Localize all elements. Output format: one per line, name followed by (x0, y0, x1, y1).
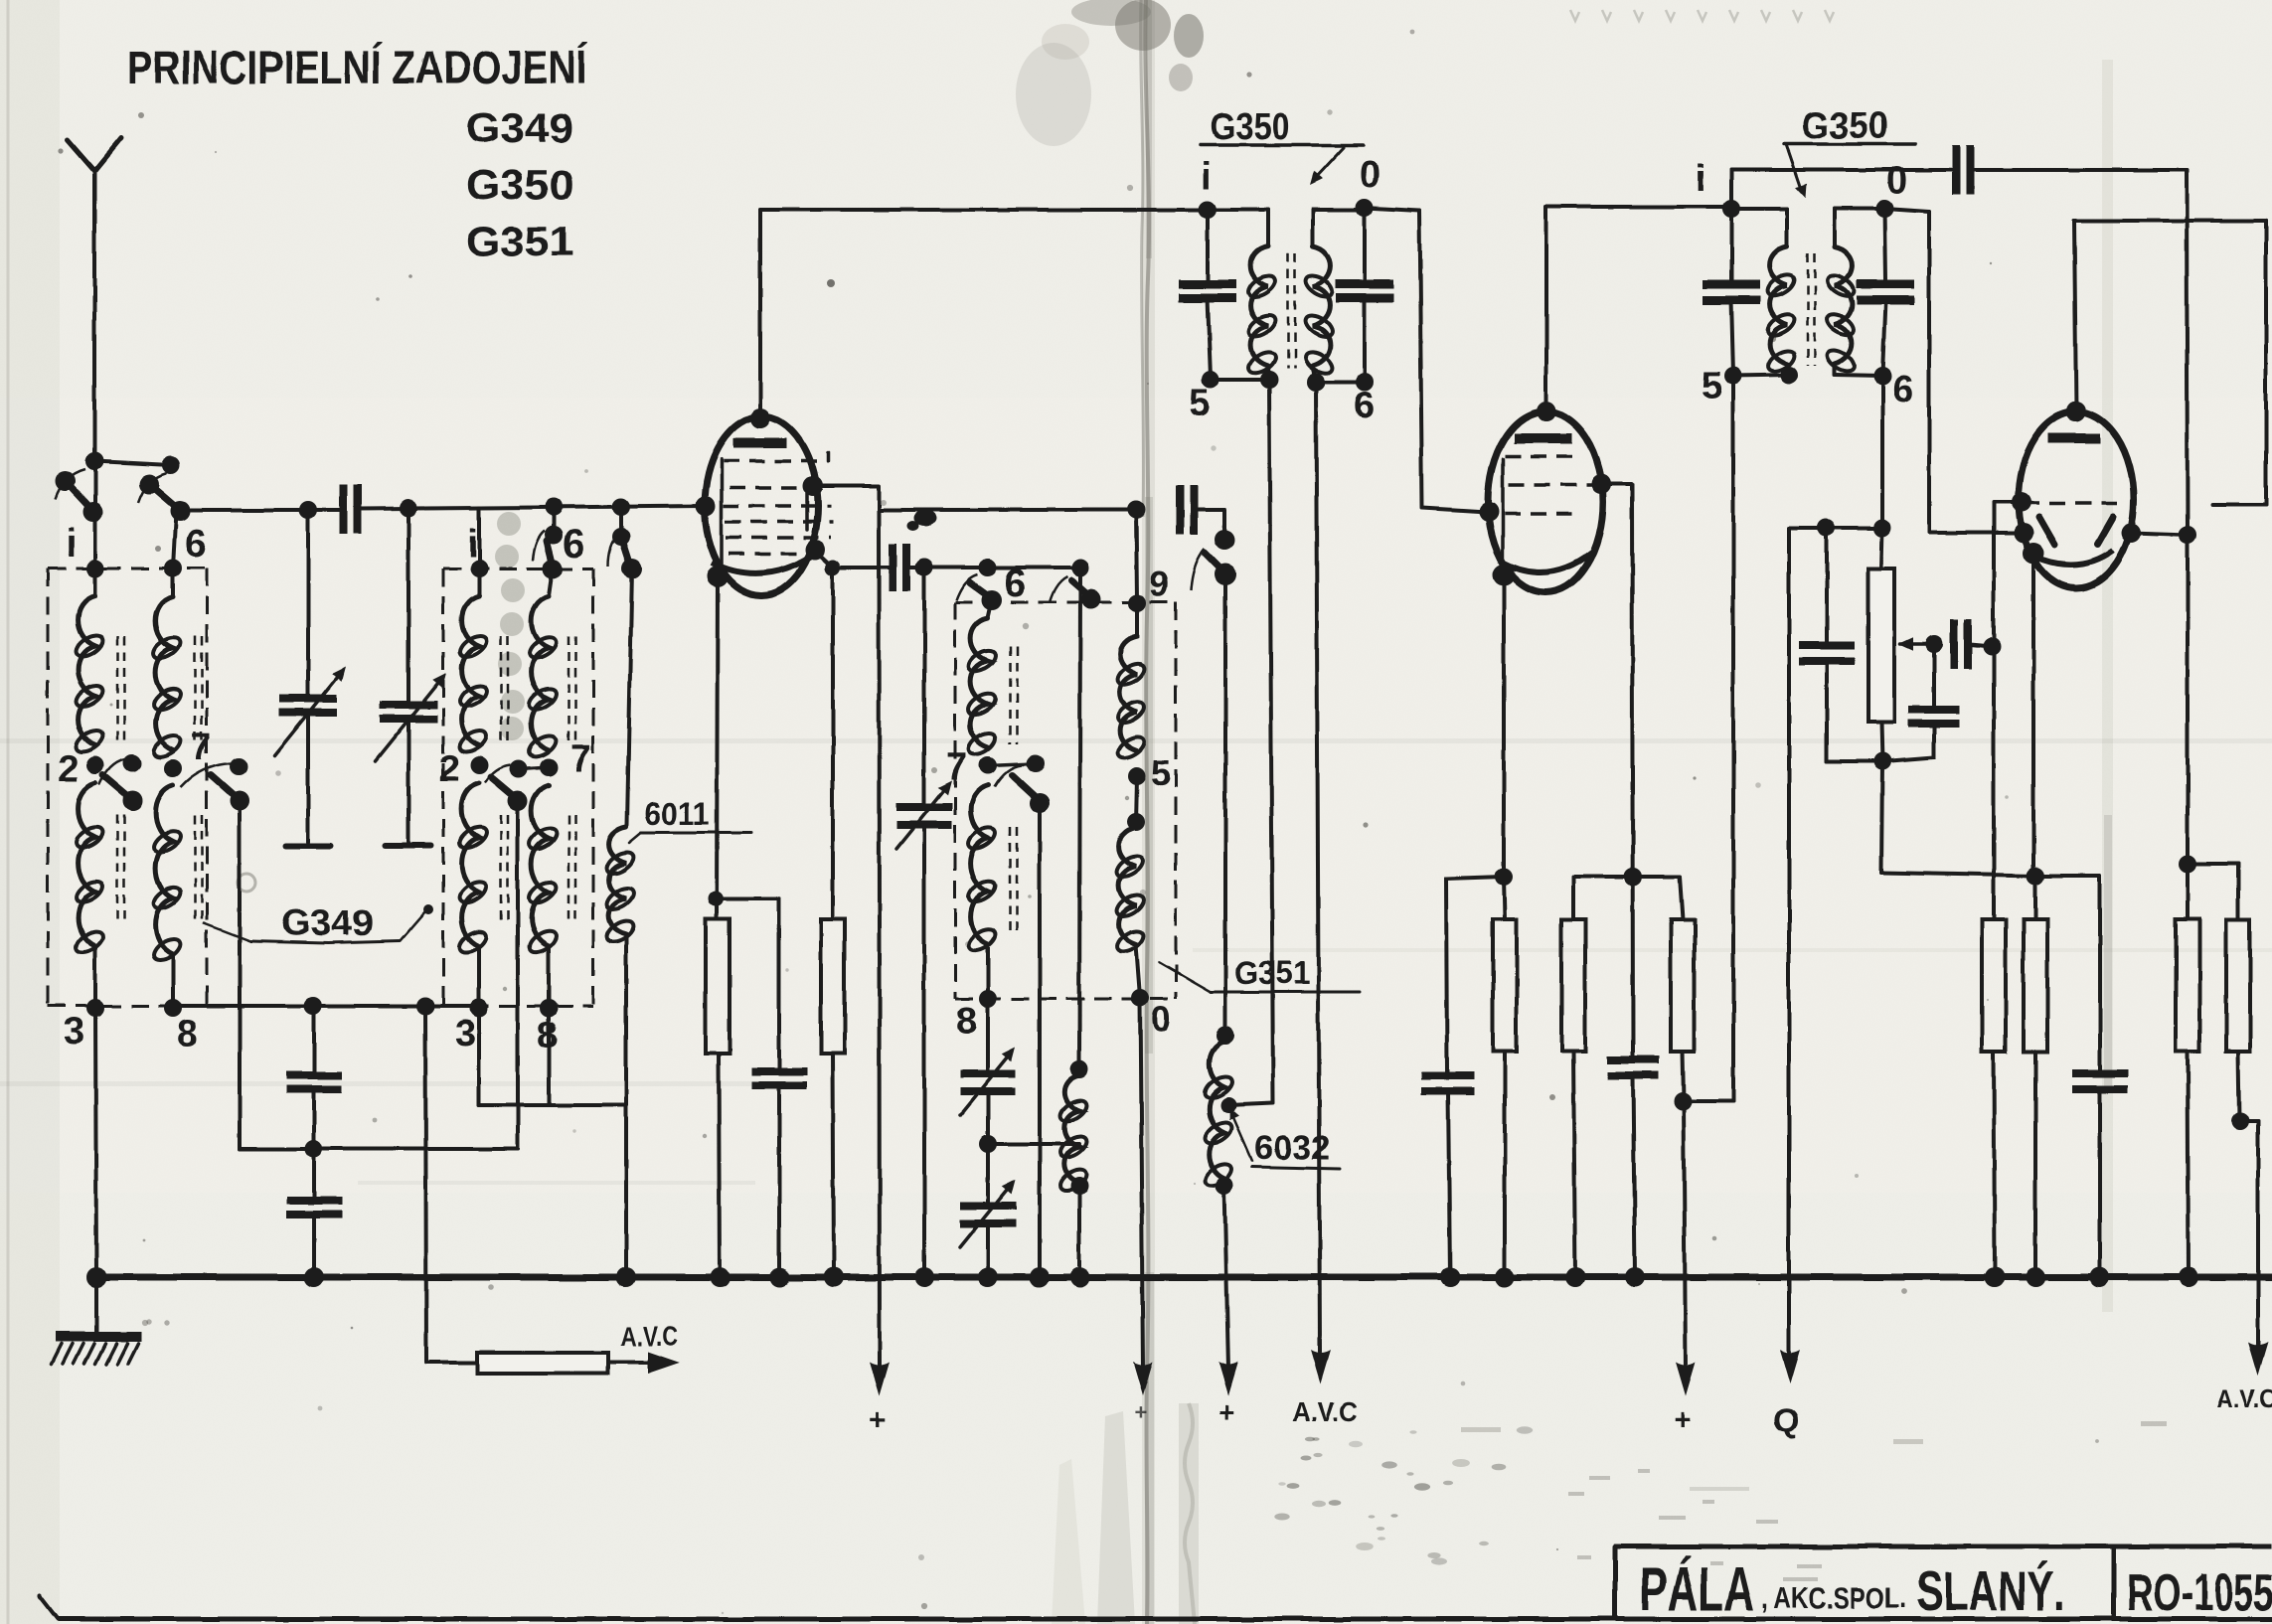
coil L11 primary (1208, 210, 1279, 380)
svg-text:5: 5 (1151, 752, 1171, 793)
node (825, 560, 841, 575)
switch S3a at tap 2 (99, 754, 143, 811)
node 6 (1356, 373, 1374, 391)
wire main tuning line (180, 508, 342, 512)
node tap 2 (470, 756, 488, 774)
svg-text:i: i (467, 522, 478, 566)
wire anode rail (760, 208, 1208, 212)
node terminal 3 (470, 999, 488, 1017)
node bus junction (304, 1267, 324, 1287)
node bus junction (1495, 1267, 1515, 1287)
wire to plus (879, 510, 880, 1370)
tube V3 grid dashes (2024, 501, 2123, 505)
node terminal 1 (470, 560, 488, 577)
wire terminal 1 lead (477, 508, 481, 568)
wire (1881, 722, 1882, 761)
wire padder lead (922, 568, 926, 803)
node (1925, 635, 1943, 653)
resistor R8 (2176, 864, 2199, 1052)
wire (1827, 759, 1882, 763)
capacitor C3 (1180, 485, 1194, 535)
coil L2a upper (456, 568, 490, 756)
svg-text:+: + (1218, 1396, 1234, 1427)
svg-text:7: 7 (946, 746, 967, 788)
node (299, 501, 317, 519)
wire 3b drop (477, 1008, 481, 1105)
wire tap switch drop (238, 801, 242, 1149)
node i (1722, 200, 1740, 218)
coil L10 upper (1114, 603, 1148, 762)
node bus junction (1985, 1267, 2005, 1287)
label G349 with callouts (204, 902, 433, 943)
node grid (1479, 502, 1499, 522)
node terminal 3 (86, 999, 104, 1017)
node (1070, 1177, 1088, 1195)
capacitor C13 (1607, 1059, 1659, 1277)
coil L7 (1056, 1075, 1090, 1195)
svg-text:+: + (1135, 1399, 1148, 1424)
capacitor C12 (1421, 879, 1475, 1277)
wire (716, 898, 779, 1067)
switch S7 at tap (988, 754, 1050, 813)
label terminal 3 (455, 1013, 476, 1055)
coil L1a upper (73, 568, 106, 756)
svg-text:6: 6 (185, 522, 207, 566)
label 0 (1886, 160, 1907, 202)
node i (1199, 201, 1217, 219)
wire secondary return to AVC (1316, 382, 1320, 1352)
trimmer capacitor CT5 (960, 1144, 1021, 1247)
wire top coupling (1731, 170, 1952, 209)
coil L6 6011 (603, 827, 637, 946)
node (979, 1135, 997, 1153)
wire (908, 566, 1080, 569)
node (162, 456, 180, 474)
wire (1211, 378, 1269, 382)
node tap 7 (540, 758, 558, 776)
wire (1881, 528, 1882, 568)
node bus junction (1440, 1267, 1460, 1287)
wire V3 top (2074, 221, 2076, 411)
label + (1135, 1399, 1148, 1424)
node (305, 1089, 323, 1197)
arrow A.V.C (648, 1352, 680, 1374)
node (1624, 868, 1642, 886)
node bus junction (824, 1267, 844, 1287)
svg-text:7: 7 (570, 738, 591, 780)
switch S2a (533, 508, 563, 578)
wire 8b drop (547, 1008, 551, 1105)
wire (1994, 1052, 1995, 1277)
antenna A1 (68, 138, 121, 461)
trimmer capacitor CT4 (960, 999, 1021, 1115)
svg-text:6: 6 (1004, 562, 1026, 605)
switch S1a (56, 469, 103, 522)
capacitor C1 (344, 484, 358, 534)
tube V3 top electrode bar (2048, 433, 2100, 443)
label terminal 8 (177, 1013, 198, 1055)
label 0 (1151, 999, 1171, 1040)
dashed box coil assembly 2 (443, 568, 593, 1006)
label tap 7 (191, 727, 212, 768)
potentiometer P1 (1868, 568, 1894, 722)
node bus junction (616, 1267, 636, 1287)
node (2179, 526, 2196, 544)
node (1873, 519, 1891, 537)
svg-text:G349: G349 (466, 104, 573, 151)
svg-text:0: 0 (1151, 999, 1171, 1040)
wire to plus (1224, 1186, 1228, 1370)
wire screen drop (1601, 484, 1633, 1056)
switch S8 (1191, 530, 1236, 590)
node (1674, 1092, 1692, 1110)
resistor R3 (1493, 877, 1517, 1052)
wire (986, 1091, 990, 1144)
node bus junction (1565, 1267, 1585, 1287)
svg-text:Q: Q (1773, 1402, 1799, 1440)
core dashes (1010, 646, 1017, 938)
label A.V.C (620, 1321, 678, 1352)
svg-text:i: i (66, 522, 77, 566)
node top (2066, 402, 2086, 421)
svg-text:2: 2 (439, 748, 460, 790)
tube V2 top electrode bar (1514, 433, 1572, 443)
wire (624, 934, 628, 1277)
node terminal 1 (86, 560, 104, 577)
wire detector line (1884, 209, 2019, 533)
svg-text:+: + (869, 1403, 887, 1436)
capacitor C10 (286, 1006, 342, 1089)
coil L1b upper (150, 568, 184, 761)
svg-text:9: 9 (1149, 564, 1169, 604)
node (416, 997, 434, 1015)
svg-text:PRINCIPIELNÍ ZADOJENÍ: PRINCIPIELNÍ ZADOJENÍ (127, 41, 588, 93)
trimmer capacitor CT2 (375, 508, 451, 846)
wire (1573, 1052, 1575, 1277)
arrow A.V.C (1311, 1350, 1331, 1383)
svg-text:, AKC.SPOL.: , AKC.SPOL. (1761, 1582, 1906, 1615)
capacitor C7 (1703, 209, 1760, 375)
tube V1 top electrode bar (733, 438, 787, 448)
label A.V.C (1292, 1396, 1358, 1427)
node 9 (1128, 594, 1146, 612)
tube V1 inner structure (722, 459, 807, 574)
wire (1733, 375, 1789, 376)
label arrow (1786, 144, 1811, 200)
tube V3 diode plates (2039, 517, 2113, 545)
node (1495, 868, 1513, 886)
wire terminals 8-3 link (173, 1004, 479, 1008)
node (1070, 1060, 1088, 1078)
coil L2b upper (526, 568, 560, 761)
label G350 (1201, 106, 1364, 148)
arrow Q (1780, 1350, 1800, 1383)
label 9 (1149, 564, 1169, 604)
node terminal 8 (979, 990, 997, 1008)
node (1071, 559, 1089, 576)
core dashes (195, 636, 202, 922)
arrow + (1676, 1362, 1696, 1395)
tube V2 inner structure (1501, 459, 1505, 568)
sheet bottom frame (40, 1596, 2272, 1619)
arrow + (870, 1362, 890, 1395)
capacitor C17 (2072, 1073, 2128, 1277)
ground symbol (52, 1277, 141, 1364)
svg-text:3: 3 (455, 1013, 476, 1055)
resistor R6 (1982, 919, 2006, 1052)
core dashes (117, 636, 124, 922)
node diode right (2121, 523, 2141, 543)
label Q (1773, 1402, 1799, 1440)
svg-text:8: 8 (177, 1013, 198, 1055)
node grid (696, 496, 716, 516)
coil L13 primary (1731, 209, 1798, 376)
node (304, 997, 322, 1015)
svg-text:A.V.C: A.V.C (1292, 1396, 1358, 1427)
node (805, 540, 825, 560)
resistor R2 (821, 919, 845, 1054)
title text G350 (466, 161, 573, 208)
svg-text:0: 0 (1360, 154, 1380, 196)
node (400, 499, 417, 517)
node screen (803, 476, 823, 496)
node (979, 559, 997, 576)
capacitor C16 below wiper (1884, 644, 1960, 761)
title block text RO-10552 (2127, 1564, 2272, 1622)
wire (1503, 1052, 1507, 1277)
label + (869, 1403, 887, 1436)
wire (1228, 1103, 1273, 1105)
title text G351 (466, 218, 573, 264)
label G351 (1159, 955, 1360, 992)
ink blob (907, 510, 936, 531)
capacitor C14 (1799, 528, 1855, 761)
node diode left upper (2012, 492, 2031, 512)
node (1216, 1177, 1233, 1195)
node 5 (1202, 371, 1219, 389)
node (1780, 366, 1798, 384)
wire (1223, 574, 1227, 1036)
title block box (1615, 1546, 2272, 1619)
wire transformer 5 return (1731, 376, 1735, 1101)
node (2027, 867, 2044, 885)
label terminal 1 (467, 522, 478, 566)
wire (833, 1054, 834, 1277)
label A.V.C (2216, 1383, 2272, 1413)
dashed box coil assembly 1 (48, 568, 207, 1006)
core dashes (1808, 253, 1815, 366)
wire (986, 1223, 990, 1277)
title text PRINCIPIELNI ZADOJENI (127, 41, 588, 93)
node bus junction (2026, 1267, 2045, 1287)
svg-text:6: 6 (1892, 369, 1913, 410)
svg-text:RO-10552: RO-10552 (2127, 1564, 2272, 1622)
wire (1316, 380, 1365, 384)
svg-text:5: 5 (1702, 365, 1722, 406)
core dashes (568, 636, 575, 922)
wire terminal 1 lead (93, 461, 97, 568)
node antenna junction (85, 452, 103, 470)
label terminal 8 (537, 1015, 558, 1056)
wire cathode resistor lead (717, 576, 718, 919)
label tap 2 (58, 748, 79, 790)
tube V1 grid dashes (724, 452, 833, 554)
node bus junction (769, 1267, 789, 1287)
wire switch link (240, 1147, 518, 1151)
node tap 7 (164, 759, 182, 777)
node tap (1220, 1097, 1236, 1113)
node cathode (2023, 543, 2044, 565)
wire to plus arrow (1140, 998, 1143, 1370)
svg-text:i: i (1696, 158, 1706, 200)
label terminal 1 (66, 522, 77, 566)
title block text PALA (1640, 1555, 1754, 1624)
svg-text:5: 5 (1189, 383, 1210, 424)
wire (1633, 877, 1683, 919)
svg-text:G351: G351 (466, 218, 573, 264)
switch S3b at tap 7 (181, 757, 249, 811)
wire (1972, 170, 2188, 535)
wire (1077, 1186, 1081, 1277)
node (1217, 1027, 1234, 1045)
ground bus (94, 1274, 2272, 1281)
svg-text:PÁLA: PÁLA (1640, 1555, 1754, 1624)
capacitor C2 (893, 544, 906, 591)
node screen (1591, 474, 1611, 494)
title block text SLANY (1916, 1559, 2065, 1622)
core dashes (501, 636, 508, 922)
node bus junction (2179, 1267, 2198, 1287)
resistor R9 (2226, 919, 2250, 1052)
node bus junction (914, 1267, 934, 1287)
title text G349 (466, 104, 573, 151)
capacitor C5 (1336, 208, 1393, 380)
resistor R5 (1671, 919, 1695, 1052)
wire (2238, 1052, 2239, 1119)
wire primary return (1269, 380, 1273, 1103)
trimmer capacitor CT3 (896, 776, 957, 849)
arrow A.V.C (2248, 1342, 2268, 1376)
wire (2188, 1052, 2189, 1277)
svg-text:G350: G350 (1211, 106, 1290, 148)
label 6 (1004, 562, 1026, 605)
svg-text:A.V.C: A.V.C (2216, 1383, 2272, 1413)
node (1127, 813, 1145, 831)
wire right branch (2186, 535, 2190, 862)
wire diode left lead (1994, 502, 2022, 919)
label 6 (1892, 369, 1913, 410)
wire (986, 944, 990, 999)
arrow + (1133, 1362, 1153, 1395)
label 5 (1702, 365, 1722, 406)
wire secondary drop (1880, 376, 1884, 528)
node bus junction (2090, 1267, 2110, 1287)
svg-text:SLANÝ.: SLANÝ. (1916, 1559, 2065, 1622)
svg-text:6: 6 (563, 522, 584, 566)
label terminal 3 (64, 1011, 84, 1053)
capacitor C11 (286, 1201, 342, 1277)
resistor R4 (1561, 919, 1585, 1052)
capacitor C4 (1179, 210, 1236, 378)
wire (1573, 877, 1633, 919)
tube V3 cathode arc (2026, 551, 2113, 566)
node (1983, 637, 2001, 655)
node terminal 8 (540, 999, 558, 1017)
node (1873, 752, 1891, 770)
wire (516, 801, 520, 1149)
wire (608, 1361, 654, 1365)
node tap 2 (86, 756, 104, 774)
svg-text:8: 8 (956, 1001, 977, 1043)
wire (1835, 375, 1882, 376)
svg-text:+: + (1674, 1403, 1692, 1436)
core dashes (1288, 253, 1295, 368)
label 6032 (1224, 1105, 1340, 1169)
wire V2 anode to rail (1546, 207, 1731, 411)
wire top right link (2074, 221, 2266, 505)
switch S6 (1050, 576, 1101, 609)
label 5 (1189, 383, 1210, 424)
tube V2 grid dashes (1505, 456, 1596, 514)
tube V1 cathode arc (712, 553, 817, 573)
label arrow (1306, 147, 1344, 189)
tube V1 envelope (705, 416, 818, 595)
node diode left (2014, 523, 2033, 543)
coil L2a lower (456, 783, 490, 1006)
wire (719, 1054, 720, 1277)
svg-text:3: 3 (64, 1011, 84, 1053)
label 6 (1354, 385, 1375, 426)
label i (1696, 158, 1706, 200)
coil L1b lower (150, 785, 184, 1006)
capacitor C9 (751, 1071, 807, 1277)
wire (2131, 533, 2188, 535)
svg-text:6: 6 (1354, 385, 1375, 426)
node 0 (1875, 200, 1893, 218)
node 0 (1131, 989, 1149, 1007)
coil L9 lower (965, 785, 999, 954)
wire to Q (1787, 528, 1791, 1352)
wire osc coil top (1136, 510, 1137, 602)
node cathode (707, 566, 729, 587)
coil L1a lower (73, 783, 106, 1006)
wiper arrow (1898, 637, 1932, 651)
wire terminal 3 to bus (95, 1008, 96, 1277)
wire (1683, 1052, 1684, 1101)
label + (1674, 1403, 1692, 1436)
label G350 second (1784, 105, 1915, 147)
node bus junction (1625, 1267, 1645, 1287)
wire (988, 1142, 1079, 1146)
coil L10 lower (1113, 776, 1147, 956)
wire (173, 511, 176, 568)
wire (2035, 876, 2100, 1069)
wire switch drop (1038, 803, 1042, 1277)
node (1307, 373, 1325, 391)
label terminal 6 (563, 522, 584, 566)
node (708, 891, 724, 906)
node top (1537, 402, 1556, 421)
node tap 7 (979, 756, 997, 774)
wire (360, 506, 708, 509)
wire to plus (1684, 1101, 1686, 1370)
label i (1201, 156, 1212, 198)
switch S1b (138, 473, 190, 521)
wire R2 lead (831, 568, 835, 919)
wire screen step (813, 486, 1136, 510)
wire avc tap line (425, 1006, 477, 1363)
capacitor C15 (1954, 619, 1992, 669)
